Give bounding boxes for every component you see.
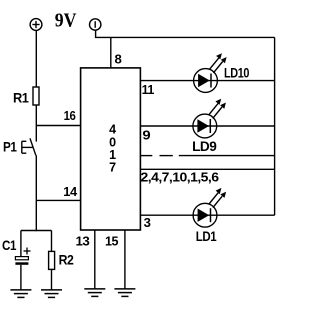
ground pin 15: [114, 289, 135, 297]
ground under C1: [10, 290, 31, 298]
wire row pin 11: [140, 80, 274, 82]
svg-text:14: 14: [63, 184, 78, 199]
resistor R2: [49, 251, 55, 269]
wire pin 15: [124, 230, 126, 289]
wire pin 14: [36, 199, 80, 201]
wire to C1: [20, 231, 22, 257]
svg-text:4: 4: [109, 122, 116, 136]
pushbutton P1: [22, 138, 36, 155]
ground under R2: [41, 290, 62, 298]
wire C1 to ground: [20, 265, 22, 290]
svg-text:LD1: LD1: [196, 228, 217, 244]
LED LD10: [194, 53, 227, 92]
wire pin 8: [110, 37, 112, 68]
capacitor C1: [15, 248, 30, 265]
LED LD9: [193, 99, 226, 138]
svg-text:3: 3: [144, 215, 151, 230]
battery + terminal: [30, 19, 42, 31]
battery - terminal: [90, 19, 101, 30]
wire right bus: [274, 37, 276, 215]
wire row pins 2,4,7,10,1,5,6: [140, 168, 274, 170]
ground pin 13: [84, 289, 105, 297]
wire C1/R2 horizontal: [21, 230, 52, 232]
wire row pin 3: [140, 214, 274, 216]
svg-text:7: 7: [109, 160, 116, 174]
svg-text:R2: R2: [59, 252, 74, 268]
wire from + terminal to R1: [35, 30, 37, 87]
svg-text:C1: C1: [2, 237, 17, 253]
wire row pin 9: [140, 125, 274, 127]
svg-text:LD10: LD10: [224, 65, 250, 81]
wire to R2: [51, 231, 53, 252]
svg-text:8: 8: [115, 51, 122, 66]
4017 label: [109, 122, 116, 174]
wire from - terminal to top rail: [96, 30, 275, 37]
wire pin 16: [36, 125, 80, 127]
svg-text:P1: P1: [3, 139, 17, 155]
svg-text:13: 13: [76, 234, 90, 249]
svg-text:16: 16: [64, 108, 76, 123]
svg-text:9: 9: [142, 127, 150, 142]
svg-text:LD9: LD9: [192, 138, 217, 154]
LED LD1: [193, 188, 226, 227]
dashed row (omitted outputs): [140, 155, 274, 157]
svg-text:9V: 9V: [55, 10, 77, 32]
wire pin 13: [94, 230, 96, 289]
wire R2 to ground: [51, 269, 53, 289]
svg-text:2,4,7,10,1,5,6: 2,4,7,10,1,5,6: [141, 170, 219, 185]
wire R1 to P1: [35, 105, 37, 142]
svg-text:15: 15: [105, 233, 118, 248]
svg-text:11: 11: [142, 82, 154, 97]
IC U1 4017: [81, 68, 141, 230]
resistor R1: [33, 87, 39, 105]
wire P1 to C1/R2 junction: [35, 155, 37, 231]
svg-text:R1: R1: [13, 90, 29, 106]
